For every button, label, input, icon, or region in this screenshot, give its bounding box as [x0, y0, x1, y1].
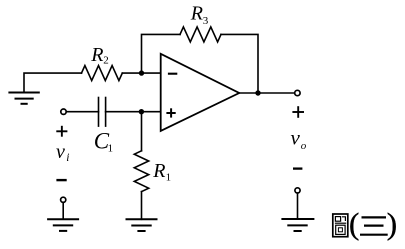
svg-text:3: 3: [203, 15, 209, 27]
svg-text:R: R: [190, 2, 203, 24]
svg-text:v: v: [56, 141, 65, 163]
svg-text:i: i: [66, 152, 69, 164]
svg-text:2: 2: [103, 55, 109, 67]
svg-text:1: 1: [108, 143, 114, 155]
svg-text:v: v: [291, 126, 301, 150]
svg-text:R: R: [90, 44, 103, 66]
svg-text:R: R: [152, 160, 165, 182]
svg-text:): ): [387, 206, 397, 241]
svg-text:o: o: [301, 140, 307, 152]
svg-text:(: (: [349, 206, 359, 241]
svg-text:1: 1: [166, 172, 172, 184]
